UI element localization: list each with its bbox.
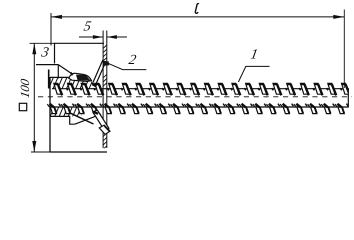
dimension 100 top arrow <box>32 43 36 54</box>
screw flight bottom 13 <box>212 104 225 114</box>
screw flight top 1 <box>54 83 68 95</box>
head upper blade dark tip <box>92 84 96 86</box>
head lower wedge white area <box>70 114 102 125</box>
screw flight top 3 <box>81 83 95 95</box>
svg-text:100: 100 <box>18 77 32 99</box>
screw flight bottom 21 <box>321 104 334 114</box>
head lower step <box>50 116 75 124</box>
dimension l right extension line <box>343 10 345 89</box>
screw shaft centerline <box>38 96 352 98</box>
screw flight bottom 14 <box>225 104 238 114</box>
head tooth top edge (leader 3 shelf) <box>36 64 58 66</box>
screw flight bottom 19 <box>294 104 307 114</box>
screw flight bottom 3 <box>75 104 88 114</box>
screw flight top 15 <box>246 83 260 95</box>
leader line for label 2 <box>108 63 147 70</box>
screw flight bottom 9 <box>157 104 170 114</box>
disc plate part 2 body <box>103 31 107 150</box>
screw flight top 21 <box>328 83 342 95</box>
head lower wedge main diagonal <box>71 113 94 124</box>
screw flight bottom 20 <box>308 104 321 114</box>
head tooth right edge <box>57 65 59 79</box>
screw flight top 2 <box>68 83 82 95</box>
screw flight bottom 10 <box>171 104 184 114</box>
dimension l left extension line <box>50 13 52 46</box>
screw flight top 6 <box>122 83 136 95</box>
screw flight top 5 <box>109 83 123 95</box>
screw flight bottom 8 <box>143 104 156 114</box>
screw flight bottom 1 <box>47 104 60 114</box>
screw flight top 14 <box>232 83 246 95</box>
head part 3 dark left edge mid <box>48 70 50 89</box>
screw flight bottom 7 <box>130 104 143 114</box>
screw flight top 22 <box>342 83 354 95</box>
dimension l label <box>195 4 198 14</box>
head tooth chamfer <box>58 65 72 74</box>
head part 3 left edge lower <box>49 77 51 152</box>
screw flight top 7 <box>136 83 150 95</box>
screw flight bottom 2 <box>61 104 74 114</box>
head leg band <box>93 110 109 131</box>
head part 3 top edge <box>55 42 105 44</box>
screw flight top 13 <box>218 83 232 95</box>
screw flight top 16 <box>259 83 273 95</box>
screw shaft bottom edge <box>52 106 348 108</box>
screw flight top 9 <box>163 83 177 95</box>
screw flight bottom 12 <box>198 104 211 114</box>
dimension 5 line left part with arrow <box>79 35 103 39</box>
dimension 100 top extension line <box>30 42 55 44</box>
screw flight top 12 <box>205 83 219 95</box>
screw flight bottom 6 <box>116 104 129 114</box>
screw flight top 18 <box>287 83 301 95</box>
dimension l right arrow <box>333 15 344 19</box>
head upper blade edge line a <box>92 60 103 84</box>
screw shaft top edge <box>52 88 348 90</box>
head part 3 left edge upper <box>54 43 56 64</box>
screw flight top 10 <box>177 83 191 95</box>
dimension 100 bottom arrow <box>32 141 36 152</box>
screw flight bottom 5 <box>102 104 115 114</box>
dimension 100 vertical line <box>33 43 35 152</box>
head foot pad <box>99 125 110 134</box>
head hump knuckle <box>69 72 92 81</box>
screw flight bottom 18 <box>280 104 293 114</box>
square section symbol <box>19 103 26 110</box>
disc junction dark knot <box>103 61 109 66</box>
screw flight bottom 11 <box>184 104 197 114</box>
screw flight top 20 <box>314 83 328 95</box>
screw flight top 19 <box>300 83 314 95</box>
head lower wedge return diagonal <box>75 114 101 124</box>
screw flight bottom 4 <box>88 104 101 114</box>
head upper blade edge line b <box>95 62 106 86</box>
leader line for label 1 <box>238 66 269 82</box>
screw shaft right end cap <box>347 88 349 108</box>
dimension l line <box>51 16 344 18</box>
screw flight bottom 17 <box>267 104 280 114</box>
screw flight bottom 15 <box>239 104 252 114</box>
head hatch top boundary <box>50 76 69 78</box>
dimension l left arrow <box>51 15 62 19</box>
screw flight bottom 16 <box>253 104 266 114</box>
screw flight top 4 <box>95 83 109 95</box>
screw flight top 11 <box>191 83 205 95</box>
dimension 5 line right part with arrow <box>107 35 127 39</box>
screw flight bottom 22 <box>335 104 348 114</box>
screw flight top 17 <box>273 83 287 95</box>
dimension 100 bottom extension line <box>31 151 50 153</box>
screw flight top 8 <box>150 83 164 95</box>
head part 3 bottom edge <box>50 151 107 153</box>
